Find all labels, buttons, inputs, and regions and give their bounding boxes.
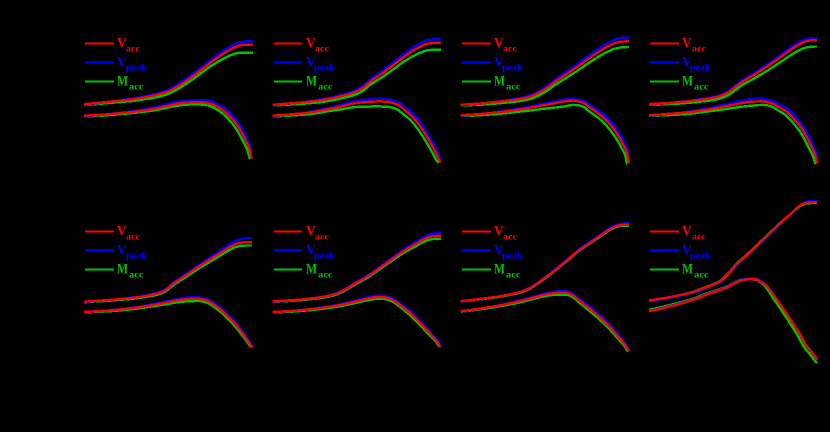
svg-text:V: V [682,224,692,240]
svg-text:acc: acc [129,270,144,280]
panel row1 col1: upper V_acc curve (red) [84,45,253,105]
legend row2 col1: M_acc entry (green) [85,262,144,281]
panel row2 col1: lower V_peak curve (blue) [84,297,252,346]
legend row1 col4: M_acc entry (green) [650,74,709,93]
panel row1 col2: upper V_acc curve (red) [273,43,442,105]
panel row2 col4: lower V_acc curve (red) [649,279,818,359]
panel row2 col2: lower M_acc curve (green) [273,299,440,347]
legend row2 col1: V_acc entry (red) [85,224,140,243]
panel row1 col2: lower V_acc curve (red) [273,101,441,162]
svg-text:M: M [494,74,505,90]
panel row2 col3: upper V_peak curve (blue) [461,223,629,302]
legend row1 col3: V_peak entry (blue) [462,55,523,74]
svg-text:peak: peak [690,63,711,73]
panel row2 col2: upper V_acc curve (red) [273,236,442,302]
legend row1 col4: V_acc entry (red) [650,36,706,55]
svg-text:acc: acc [503,232,517,242]
panel row2 col1: upper V_acc curve (red) [84,242,252,302]
panel row1 col2: lower M_acc curve (green) [273,106,439,163]
panel row2 col4: lower V_peak curve (blue) [649,279,818,360]
panel row2 col4: upper V_acc curve (red) [649,202,817,300]
legend row1 col3: V_acc entry (red) [462,36,517,55]
panel row1 col4: upper M_acc curve (green) [649,47,817,105]
svg-text:acc: acc [126,44,140,54]
svg-text:M: M [682,74,693,90]
legend row1 col2: V_acc entry (red) [274,36,329,55]
legend row2 col3: M_acc entry (green) [462,262,521,281]
svg-text:peak: peak [502,63,523,73]
panel row2 col1: upper M_acc curve (green) [84,246,252,303]
svg-text:acc: acc [318,82,333,92]
legend row2 col2: V_acc entry (red) [274,224,329,243]
panel row1 col4: lower M_acc curve (green) [649,105,816,164]
svg-text:acc: acc [503,44,517,54]
legend row1 col1: M_acc entry (green) [85,74,144,93]
svg-text:M: M [306,74,317,90]
panel row2 col3: lower V_acc curve (red) [461,293,629,352]
panel row2 col4: upper M_acc curve (green) [649,203,817,301]
panel row1 col3: lower M_acc curve (green) [461,105,628,164]
panel row1 col2: upper M_acc curve (green) [273,50,442,106]
panel row1 col2: lower V_peak curve (blue) [273,99,441,160]
svg-text:M: M [117,74,128,90]
panel row2 col1: lower V_acc curve (red) [84,299,252,348]
svg-text:acc: acc [506,82,521,92]
panel row1 col1: upper V_peak curve (blue) [84,41,253,105]
svg-text:M: M [306,262,317,278]
panel row1 col3: lower V_acc curve (red) [461,101,629,163]
panel row2 col3: lower V_peak curve (blue) [461,291,629,350]
legend row1 col4: V_peak entry (blue) [650,55,711,74]
svg-text:acc: acc [506,270,521,280]
panel row1 col4: lower V_acc curve (red) [649,101,817,163]
legend row1 col1: V_peak entry (blue) [85,55,147,74]
panel row1 col4: upper V_peak curve (blue) [649,38,817,105]
svg-text:peak: peak [502,251,523,261]
panel row1 col4: upper V_acc curve (red) [649,40,817,104]
svg-text:peak: peak [690,251,711,261]
panel row2 col1: lower M_acc curve (green) [84,301,251,348]
svg-text:M: M [117,262,128,278]
legend row1 col2: V_peak entry (blue) [274,55,335,74]
svg-text:peak: peak [126,63,147,73]
legend row2 col4: V_acc entry (red) [650,224,706,243]
panel row2 col2: lower V_acc curve (red) [273,297,441,347]
svg-text:acc: acc [692,232,706,242]
panel row1 col4: lower V_peak curve (blue) [649,99,817,158]
panel row2 col2: upper M_acc curve (green) [273,239,442,302]
legend row2 col1: V_peak entry (blue) [85,243,147,262]
legend row1 col1: V_acc entry (red) [85,36,140,55]
legend row2 col4: M_acc entry (green) [650,262,709,281]
svg-text:acc: acc [694,82,709,92]
panel row1 col3: upper V_peak curve (blue) [461,37,629,105]
panel row1 col3: lower V_peak curve (blue) [461,99,629,155]
panel row2 col2: lower V_peak curve (blue) [273,296,441,346]
svg-text:acc: acc [318,270,333,280]
svg-text:acc: acc [315,232,329,242]
panel row1 col1: lower M_acc curve (green) [84,105,250,160]
panel row2 col3: upper V_acc curve (red) [461,225,629,302]
svg-text:acc: acc [692,44,706,54]
panel row1 col1: lower V_acc curve (red) [84,102,252,158]
svg-text:peak: peak [314,63,335,73]
panel row1 col3: upper M_acc curve (green) [461,47,629,105]
panel row1 col1: lower V_peak curve (blue) [84,100,252,152]
legend row2 col2: V_peak entry (blue) [274,243,335,262]
panel row2 col2: upper V_peak curve (blue) [273,233,442,302]
legend row2 col4: V_peak entry (blue) [650,243,711,262]
legend row2 col3: V_peak entry (blue) [462,243,523,262]
svg-text:M: M [494,262,505,278]
panel row2 col3: upper M_acc curve (green) [461,226,629,302]
svg-text:acc: acc [126,232,140,242]
panel row1 col2: upper V_peak curve (blue) [273,39,442,105]
panel row2 col1: upper V_peak curve (blue) [84,238,252,302]
panel row1 col3: upper V_acc curve (red) [461,41,629,104]
legend row1 col3: M_acc entry (green) [462,74,521,93]
svg-text:peak: peak [314,251,335,261]
legend row2 col2: M_acc entry (green) [274,262,333,281]
panel row2 col3: lower M_acc curve (green) [461,295,628,352]
svg-text:acc: acc [129,82,144,92]
panel row2 col4: upper V_peak curve (blue) [649,201,817,301]
legend row1 col2: M_acc entry (green) [274,74,333,93]
legend row2 col3: V_acc entry (red) [462,224,517,243]
svg-text:acc: acc [315,44,329,54]
svg-text:acc: acc [694,270,709,280]
panel row2 col4: lower M_acc curve (green) [649,279,818,362]
panel row1 col1: upper M_acc curve (green) [84,53,253,106]
svg-text:V: V [682,36,692,52]
svg-text:peak: peak [126,251,147,261]
svg-text:M: M [682,262,693,278]
